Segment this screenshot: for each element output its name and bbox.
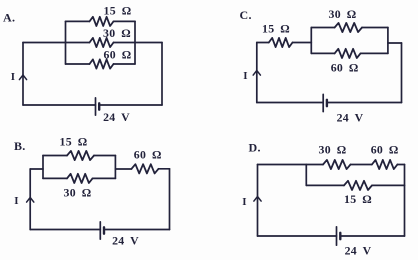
wire: B right stub <box>159 168 170 170</box>
wire: B branch-1 left lead <box>43 155 67 157</box>
wire: D bottom right segment <box>340 235 404 237</box>
wire: D top horizontal mid segment <box>351 164 372 166</box>
wire: A branch-3 right lead <box>114 63 136 65</box>
svg-text:15 Ω: 15 Ω <box>262 22 290 36</box>
wire: D inner branch left lead <box>306 184 344 186</box>
battery 24 V (circuit B) <box>99 222 101 239</box>
node: B parallel right bus bar <box>114 156 116 179</box>
svg-text:30 Ω: 30 Ω <box>329 7 357 21</box>
resistor 15 ohm (circuit C) <box>269 38 293 47</box>
wire: A left vertical <box>22 43 24 106</box>
wire: A bottom left segment <box>23 104 96 106</box>
wire: C lead to parallel box <box>293 42 312 44</box>
svg-text:24 V: 24 V <box>112 234 139 248</box>
svg-text:30 Ω: 30 Ω <box>103 26 131 40</box>
wire: C branch-2 left lead <box>311 52 334 54</box>
wire: C right vertical <box>401 43 403 103</box>
resistor 60 ohm (circuit D) <box>372 160 398 169</box>
wire: A branch-2 left lead <box>66 42 90 44</box>
wire: D inner branch right lead <box>372 184 405 186</box>
wire: C top-left lead <box>257 42 269 44</box>
svg-text:24 V: 24 V <box>337 111 364 125</box>
svg-text:15 Ω: 15 Ω <box>104 4 132 18</box>
svg-text:I: I <box>14 195 19 207</box>
svg-text:A.: A. <box>3 11 15 25</box>
svg-text:60 Ω: 60 Ω <box>371 143 399 157</box>
node: A parallel right bus bar <box>134 21 136 64</box>
node: C parallel right bus bar <box>387 28 389 54</box>
wire: B bottom right segment <box>104 229 170 231</box>
resistor 60 ohm (circuit A) <box>90 59 114 68</box>
wire: D top horizontal right segment <box>397 164 404 166</box>
svg-text:60 Ω: 60 Ω <box>331 61 359 75</box>
resistor 15 ohm (circuit A) <box>90 17 114 26</box>
current arrow I (circuit B) <box>27 198 34 203</box>
resistor 60 ohm (circuit C) <box>335 49 361 58</box>
svg-text:30 Ω: 30 Ω <box>64 186 92 200</box>
svg-text:24 V: 24 V <box>345 244 372 258</box>
wire: D junction drop <box>305 165 307 186</box>
svg-text:15 Ω: 15 Ω <box>344 192 372 206</box>
wire: D top horizontal left segment <box>258 164 324 166</box>
svg-text:I: I <box>11 71 16 83</box>
wire: A branch-1 left lead <box>66 20 90 22</box>
wire: B bottom left segment <box>30 229 100 231</box>
node: A parallel left bus bar <box>65 21 67 64</box>
battery 24 V (circuit D) <box>336 227 338 245</box>
wire: A top-right horizontal <box>135 42 162 44</box>
current arrow I (circuit A) <box>19 75 26 80</box>
battery 24 V (circuit C) <box>322 94 324 111</box>
svg-text:I: I <box>242 196 247 208</box>
wire: A branch-2 right lead <box>114 42 136 44</box>
resistor 30 ohm (circuit A) <box>90 38 114 47</box>
svg-text:24 V: 24 V <box>103 110 130 124</box>
wire: B left stub <box>30 168 43 170</box>
resistor 15 ohm (circuit D) <box>344 181 372 190</box>
svg-text:I: I <box>243 70 248 82</box>
resistor 30 ohm (circuit D) <box>323 160 351 169</box>
svg-text:B.: B. <box>14 139 26 153</box>
wire: A right vertical <box>161 43 163 106</box>
resistor 60 ohm (circuit B) <box>132 164 159 173</box>
wire: B right vertical <box>169 169 171 230</box>
battery 24 V (circuit A) <box>95 98 97 115</box>
wire: B branch-2 right lead <box>93 177 116 179</box>
wire: A bottom right segment <box>99 104 162 106</box>
wire: C branch-2 right lead <box>361 52 388 54</box>
wire: B branch-1 right lead <box>94 155 115 157</box>
current arrow I (circuit C) <box>253 71 260 76</box>
wire: C bottom left segment <box>257 102 323 104</box>
wire: C branch-1 right lead <box>362 27 388 29</box>
svg-text:D.: D. <box>249 141 261 155</box>
node: B parallel left bus bar <box>42 156 44 179</box>
resistor 30 ohm (circuit B) <box>67 174 93 183</box>
wire: B mid horizontal to 60 ohm <box>115 168 131 170</box>
resistor 30 ohm (circuit C) <box>335 23 362 32</box>
wire: A top-left horizontal <box>23 42 66 44</box>
wire: B left vertical <box>29 169 31 230</box>
wire: A branch-3 left lead <box>66 63 90 65</box>
wire: D left vertical <box>257 165 259 237</box>
svg-text:60 Ω: 60 Ω <box>134 148 162 162</box>
wire: C mid-right stub <box>388 42 402 44</box>
wire: C left vertical <box>256 43 258 103</box>
svg-text:60 Ω: 60 Ω <box>104 48 132 62</box>
wire: D right vertical <box>404 165 406 237</box>
resistor 15 ohm (circuit B) <box>67 151 94 160</box>
wire: B branch-2 left lead <box>43 177 67 179</box>
wire: D bottom left segment <box>258 235 337 237</box>
wire: C bottom right segment <box>327 102 402 104</box>
current arrow I (circuit D) <box>254 197 261 202</box>
svg-text:15 Ω: 15 Ω <box>60 135 88 149</box>
wire: A branch-1 right lead <box>114 20 136 22</box>
wire: C branch-1 left lead <box>311 27 334 29</box>
svg-text:C.: C. <box>240 8 252 22</box>
svg-text:30 Ω: 30 Ω <box>319 143 347 157</box>
node: C parallel left bus bar <box>310 28 312 54</box>
